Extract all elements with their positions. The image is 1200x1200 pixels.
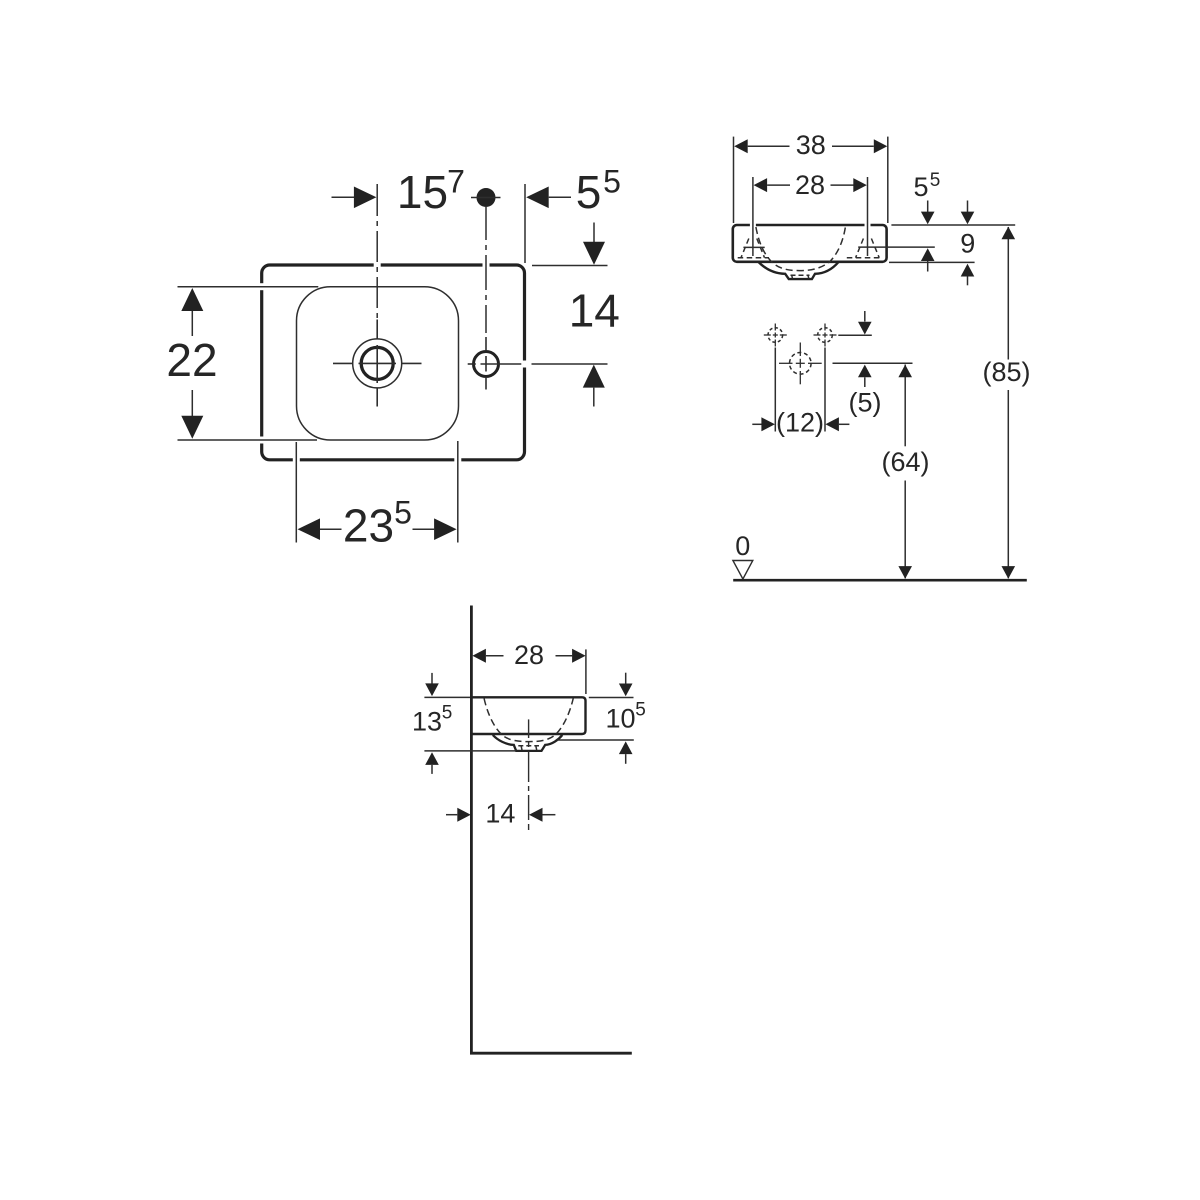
bowl underside front — [759, 262, 839, 279]
drain level line — [833, 362, 913, 364]
svg-text:5: 5 — [394, 495, 412, 531]
svg-text:14: 14 — [569, 285, 620, 337]
second hole plan — [468, 337, 608, 390]
ground line — [733, 579, 1027, 582]
svg-text:14: 14 — [485, 799, 515, 829]
arrow down to anchor level — [864, 311, 866, 322]
wall anchor hole left front — [764, 324, 787, 432]
dim 13^5 — [412, 673, 516, 774]
drain hidden front — [791, 275, 810, 279]
top edge extension line — [891, 224, 1015, 226]
tap hole cross right front + 5^5 level line — [858, 246, 935, 248]
centerline side — [528, 719, 530, 830]
basin outline plan — [262, 265, 525, 460]
hidden bowl side — [484, 699, 573, 742]
dim (85) — [982, 227, 1030, 579]
svg-text:10: 10 — [605, 704, 635, 734]
svg-text:15: 15 — [397, 166, 448, 218]
svg-text:5: 5 — [635, 700, 646, 721]
wall anchor hole right front — [814, 324, 837, 432]
svg-text:9: 9 — [960, 228, 975, 258]
floor — [470, 1052, 632, 1055]
dim 28 side — [472, 640, 586, 694]
dim (12) — [752, 408, 849, 438]
dim 22 — [166, 287, 318, 440]
tap hole plan — [333, 320, 422, 407]
dim (5) — [849, 365, 882, 418]
svg-text:(64): (64) — [881, 447, 929, 477]
dim 23^5 — [296, 441, 458, 552]
dim 10^5 — [557, 673, 646, 764]
bowl underside side — [493, 735, 563, 751]
edge gaps for extension line crossings — [255, 258, 532, 467]
tap hole recess hidden left — [738, 239, 769, 258]
dot marker — [477, 188, 496, 207]
svg-text:22: 22 — [166, 334, 217, 386]
anchor level line — [838, 334, 872, 336]
tap hole recess hidden right — [847, 239, 881, 258]
svg-text:5: 5 — [603, 164, 621, 200]
svg-text:5: 5 — [576, 166, 602, 218]
svg-text:(12): (12) — [776, 408, 824, 438]
zero level triangle — [733, 561, 753, 580]
svg-text:7: 7 — [447, 164, 465, 200]
dim 5^5 plan — [525, 164, 621, 264]
dim 38 — [734, 130, 888, 223]
dim 15^7 — [332, 164, 465, 219]
basin body side — [471, 697, 585, 734]
svg-text:38: 38 — [796, 130, 826, 160]
drain hidden side — [518, 745, 539, 750]
svg-text:5: 5 — [913, 172, 928, 202]
svg-text:28: 28 — [514, 640, 544, 670]
dim (64) — [881, 365, 929, 579]
tap hole cross left front — [743, 246, 764, 248]
dim 14 plan — [532, 223, 620, 407]
hidden bowl profile front — [756, 227, 846, 271]
svg-text:0: 0 — [735, 531, 750, 561]
basin body front — [733, 225, 887, 262]
dim 14 side — [446, 799, 555, 829]
edge gaps front — [753, 220, 868, 230]
svg-text:28: 28 — [795, 170, 825, 200]
wall — [470, 606, 473, 1054]
svg-text:5: 5 — [442, 703, 453, 724]
svg-text:23: 23 — [343, 500, 394, 552]
dim 9 — [889, 201, 975, 286]
svg-text:5: 5 — [930, 170, 941, 191]
drain circle front — [779, 343, 822, 385]
dim 5^5 front — [913, 170, 940, 272]
inner bowl plan — [297, 287, 459, 440]
svg-text:(5): (5) — [849, 388, 882, 418]
dim 28 front — [753, 170, 868, 256]
svg-text:(85): (85) — [982, 357, 1030, 387]
svg-text:13: 13 — [412, 707, 442, 737]
tap hole centerline up — [376, 184, 378, 318]
second hole centerline from dot — [485, 207, 487, 333]
